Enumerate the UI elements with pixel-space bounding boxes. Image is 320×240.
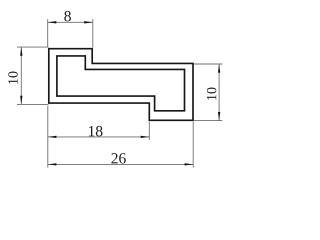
inner profile outline <box>57 56 185 111</box>
dimension line 26 <box>48 163 193 165</box>
arrow: left dim 10 bottom <box>20 96 22 105</box>
arrow: right dim 10 bottom <box>218 112 220 121</box>
dimension text left 10 (rotated) <box>8 72 17 84</box>
extension line: right dim 10 top <box>194 63 222 65</box>
outer profile outline <box>49 49 193 121</box>
extension line: right dim 10 bottom <box>194 120 222 122</box>
arrow: dim 18 left <box>48 136 57 138</box>
dimension line right 10 <box>218 64 220 121</box>
extension line: left dim 10 bottom <box>17 103 49 105</box>
extension line: dim 8 right <box>92 19 94 47</box>
dimension text 26 <box>111 153 125 163</box>
arrow: dim 8 left <box>48 21 57 23</box>
extension line: bottom left vertical (shared by dims 18 and 26) <box>47 106 49 168</box>
extension line: dim 8 left <box>47 19 49 47</box>
arrow: dim 18 right <box>141 136 150 138</box>
arrow: dim 8 right <box>84 21 93 23</box>
dimension text 8 <box>64 11 71 21</box>
dimension line left 10 <box>20 47 22 104</box>
extension line: dim 18 right vertical <box>148 122 150 140</box>
arrow: left dim 10 top <box>20 47 22 56</box>
dimension line 18 <box>48 136 150 138</box>
extension line: left dim 10 top <box>17 46 49 48</box>
dimension line 8 <box>48 21 93 23</box>
extension line: dim 26 right vertical <box>192 122 194 168</box>
dimension text right 10 (rotated) <box>207 88 216 100</box>
arrow: dim 26 right <box>185 163 194 165</box>
dimension text 18 <box>89 126 103 136</box>
arrow: right dim 10 top <box>218 64 220 73</box>
arrow: dim 26 left <box>48 163 57 165</box>
